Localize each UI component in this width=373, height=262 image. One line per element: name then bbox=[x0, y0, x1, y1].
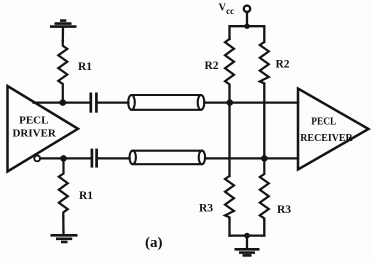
resistor R1 (bottom) zigzag bbox=[59, 158, 68, 216]
op-amp U1 PECL driver triangle bbox=[8, 86, 79, 172]
svg-text:R2: R2 bbox=[276, 59, 290, 71]
transmission line (bottom) cylinder bbox=[130, 151, 206, 165]
ground (below R1 bottom) bbox=[51, 235, 78, 242]
resistor R2 (right) zigzag bbox=[260, 42, 269, 84]
wire: R3 right to ground rail bbox=[263, 220, 265, 236]
capacitor (bottom AC coupling) bbox=[92, 149, 97, 168]
ground (inverted, above R1 top) bbox=[50, 21, 77, 27]
inversion bubble on driver inverting output bbox=[34, 156, 40, 162]
node junction: bottom output / R1 bottom bbox=[60, 155, 67, 162]
svg-text:PECL: PECL bbox=[311, 116, 336, 128]
svg-text:DRIVER: DRIVER bbox=[12, 127, 56, 139]
node junction: R2 right / bottom line bbox=[261, 155, 268, 162]
wire: R1 bottom to ground bbox=[62, 216, 65, 234]
ground (termination, bottom center) bbox=[235, 249, 260, 255]
op-amp U2 PECL receiver triangle bbox=[298, 89, 369, 170]
label: PECL DRIVER bbox=[12, 115, 56, 140]
wire: R1 top to inverted ground bbox=[62, 27, 65, 41]
wire: bottom capacitor to bottom transmission line bbox=[98, 157, 130, 159]
wire: driver noninverting output to top capacitor bbox=[34, 101, 90, 103]
svg-text:R2: R2 bbox=[205, 60, 219, 72]
Vcc terminal circle bbox=[244, 6, 250, 12]
resistor R1 (top) zigzag bbox=[58, 41, 67, 103]
node junction: ground rail center bbox=[244, 233, 250, 239]
node junction: R2 left / top line bbox=[227, 99, 234, 106]
svg-text:R3: R3 bbox=[277, 204, 291, 216]
wire: Vcc terminal to rail bbox=[246, 12, 248, 26]
svg-text:(a): (a) bbox=[145, 235, 163, 251]
wire: top capacitor to top transmission line bbox=[98, 101, 129, 103]
wire: Vcc rail bbox=[230, 26, 265, 42]
node junction: Vcc rail center bbox=[244, 24, 249, 29]
label: PECL RECEIVER bbox=[300, 116, 353, 144]
resistor R2 (left) zigzag bbox=[225, 39, 234, 87]
wire: termination ground rail bbox=[230, 234, 265, 236]
resistor R3 (left) zigzag bbox=[225, 176, 234, 220]
svg-text:PECL: PECL bbox=[19, 115, 48, 127]
svg-text:RECEIVER: RECEIVER bbox=[300, 132, 353, 144]
wire: rail to termination ground bbox=[246, 236, 248, 249]
capacitor (top AC coupling) bbox=[91, 93, 97, 113]
wire: top transmission line to receiver input bbox=[204, 101, 298, 103]
wire: bottom transmission line to receiver input bbox=[205, 157, 298, 159]
node junction: top output / R1 top bbox=[60, 99, 67, 106]
wire: R2 left to top line junction bbox=[228, 87, 230, 103]
wire: driver inverting output to bottom capacitor bbox=[40, 157, 91, 159]
wire: right vertical from R2 down across top line to bottom line bbox=[263, 84, 265, 158]
resistor R3 (right) zigzag bbox=[260, 158, 269, 220]
transmission line (top) cylinder bbox=[128, 95, 204, 110]
wire: left vertical from top line down to R3 left bbox=[228, 103, 230, 176]
wire: R3 left to ground rail bbox=[228, 220, 230, 236]
svg-text:R1: R1 bbox=[78, 61, 92, 73]
svg-text:R1: R1 bbox=[79, 190, 93, 202]
svg-text:R3: R3 bbox=[199, 202, 213, 214]
